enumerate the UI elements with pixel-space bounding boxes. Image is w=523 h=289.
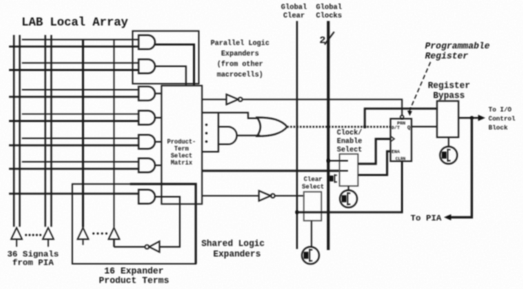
wire: G2 output to matrix top [155,66,186,85]
wire: G8 output to OR [237,135,260,137]
wire: global clocks vertical (bus) [327,21,330,250]
wire: G1 output to matrix top [155,45,194,86]
wire: matrix PT to preset buffer [202,98,226,100]
product term stack box with dots [202,113,218,152]
inverter N1 (shared expander, points left) [149,241,159,252]
wire: shared-expander feedback column 2 [113,39,115,227]
EEPROM cell C3 (below clock/enable select) [340,190,357,207]
wire: PIA column pair 2 [45,35,51,227]
OR gate O1 [257,117,287,136]
dots between expander buffers [92,232,107,234]
AND gate G6 [139,158,155,172]
label: Clock/Enable Select [337,130,362,155]
dots between PIA buffers [25,234,42,236]
wire: inverter output feedback to column [114,239,145,247]
node: global clear tap [295,210,299,214]
node: bypass tap junction [363,125,366,128]
AND gate G4 [139,111,155,125]
arrowhead to I/O control block [478,115,485,121]
box: register bypass [437,101,459,137]
wire: row3 AND input lines [22,89,139,91]
AND gate G3 [139,87,155,101]
caption: parallel logic expanders [211,40,270,80]
expander buffer T3 [78,228,89,245]
arrowhead to PIA [444,214,451,220]
wire: bypass output to I/O control block [459,117,480,119]
input buffer T2 from PIA [43,228,54,247]
label: To I/O Control Block [489,107,516,132]
AND gate G1 (parallel expander) [139,35,155,49]
buffer B2 (to clear select) [259,191,271,201]
wire: global clear vertical [296,21,298,249]
label: Programmable Register [425,42,490,62]
wire: clear select to register CLRN [297,161,402,212]
wire: buffer to clear select box [275,195,304,197]
box: clear select [304,192,322,221]
wire: row1 AND input lines [22,39,139,41]
AND gate G2 (parallel expander) [139,59,155,73]
scan noise overlay [0,0,1,1]
EEPROM cell C1 (below register bypass) [440,147,457,164]
AND gate G5 [139,135,155,149]
wire: G3 output [155,93,162,95]
box: product-term select matrix [162,86,203,204]
register U1 (programmable flip-flop) [391,119,412,162]
wire: G6 output [155,164,162,166]
wire: G4 output [155,117,162,119]
box: parallel logic expanders [133,31,199,84]
wire: PT stub inside clock/enable select [340,170,349,172]
wire: OR output to register D/T (textured) [287,126,391,128]
wire: stub to EEPROM cell below clear select [311,221,313,247]
box: 16 expander product terms [72,184,196,264]
expander buffer T4 [109,228,120,247]
bus width slash and label 2 [325,32,335,45]
wire: matrix PT to OR top input [202,113,259,119]
wire: register Q to bypass [412,126,438,128]
node: feedback tap [470,116,474,120]
box: clock/enable select [340,154,359,186]
node: global clocks tap [327,159,331,163]
AND gate G7 (shared expander product term) [139,190,155,204]
EEPROM cell C4 (below clear select) [302,247,319,264]
wire: stub to EEPROM cell below bypass [448,137,450,147]
AND gate G8 (product term AND) [218,127,236,145]
wire: feedback to PIA [450,118,472,217]
wire: global clocks to clock/enable select [328,160,348,162]
wire: matrix PT to clear buffer [202,195,259,197]
wire: PIA column pair 1 [14,35,20,227]
label: Product-Term Select Matrix [167,139,196,167]
wire: expander box emphasized top/right edge [130,184,196,264]
buffer B1 (to register preset) [226,94,238,104]
wire: clock select output to register clock [358,139,391,164]
bubble: PRN active-low [400,115,403,118]
wire: preset line to register PRN [242,99,402,115]
EEPROM cell C2 glyph (small, at box left) [329,174,337,183]
wire: G7 output to inverter [155,197,180,247]
wire: row5 AND input lines [22,137,139,139]
wire: row2 AND input lines [22,62,139,64]
register clock triangle [391,136,395,141]
wire: G5 output [155,141,162,143]
wire: stub to EEPROM cell below clock/enable select [348,186,350,190]
wire: matrix PT to clock/enable select [202,170,340,172]
dashed annotation arrow to register [409,62,430,112]
wire: enable select output to register ENA [358,151,391,175]
wire: row4 AND input lines [22,113,139,115]
input buffer T1 from PIA [11,228,22,247]
wire: row6 AND input lines [22,161,139,163]
wire: bypass branch over register [365,109,437,127]
wire: row7 AND input line [9,193,139,195]
wire: shared-expander feedback column (thick) [82,39,84,227]
